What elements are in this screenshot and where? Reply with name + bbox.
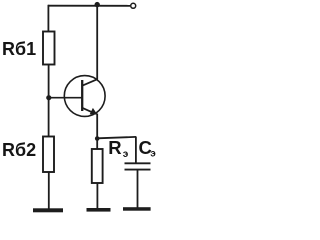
wire: emitter junction down to Rэ bbox=[96, 139, 98, 150]
capacitor Cэ bottom plate bbox=[125, 169, 151, 171]
svg-text:э: э bbox=[150, 148, 156, 159]
node: base junction dot bbox=[46, 95, 51, 100]
wire: capacitor branch vertical down to top plate bbox=[135, 137, 137, 164]
transistor VT1 emitter diagonal with NPN arrow bbox=[82, 108, 94, 113]
svg-text:Rб2: Rб2 bbox=[2, 140, 36, 160]
terminal: supply output open circle bbox=[131, 3, 136, 8]
wire: top supply rail bbox=[48, 5, 130, 7]
ground: left ground bar under Rб2 bbox=[33, 208, 63, 212]
wire: left rail from top rail to Rб1 top bbox=[47, 5, 49, 32]
svg-text:Rб1: Rб1 bbox=[2, 39, 36, 59]
wire: emitter wire down bbox=[96, 114, 98, 140]
transistor VT1 collector diagonal bbox=[82, 79, 97, 86]
wire: left rail between Rб1 and Rб2 bbox=[48, 65, 50, 138]
resistor Rб2 body bbox=[43, 137, 54, 173]
wire: base wire from divider to transistor bbox=[49, 97, 82, 99]
ground: middle ground bar under Rэ bbox=[87, 208, 111, 212]
wire: left rail from Rб2 down to ground bbox=[48, 172, 50, 209]
wire: collector wire up to top rail bbox=[96, 6, 98, 80]
resistor Rб1 body bbox=[43, 32, 55, 65]
transistor VT1 base bar bbox=[81, 80, 83, 111]
svg-text:R: R bbox=[108, 137, 121, 158]
wire: emitter junction to capacitor branch bbox=[97, 137, 136, 138]
node: emitter junction dot bbox=[95, 136, 100, 141]
node: collector-rail junction dot bbox=[95, 2, 100, 7]
transistor VT1 circle bbox=[64, 76, 105, 117]
wire: Rэ down to ground bbox=[96, 183, 98, 209]
capacitor Cэ top plate bbox=[125, 162, 151, 164]
svg-text:э: э bbox=[123, 149, 129, 160]
wire: capacitor bottom plate down to ground bbox=[137, 170, 139, 208]
resistor Rэ body bbox=[92, 149, 103, 183]
ground: right ground bar under Cэ bbox=[123, 207, 151, 211]
